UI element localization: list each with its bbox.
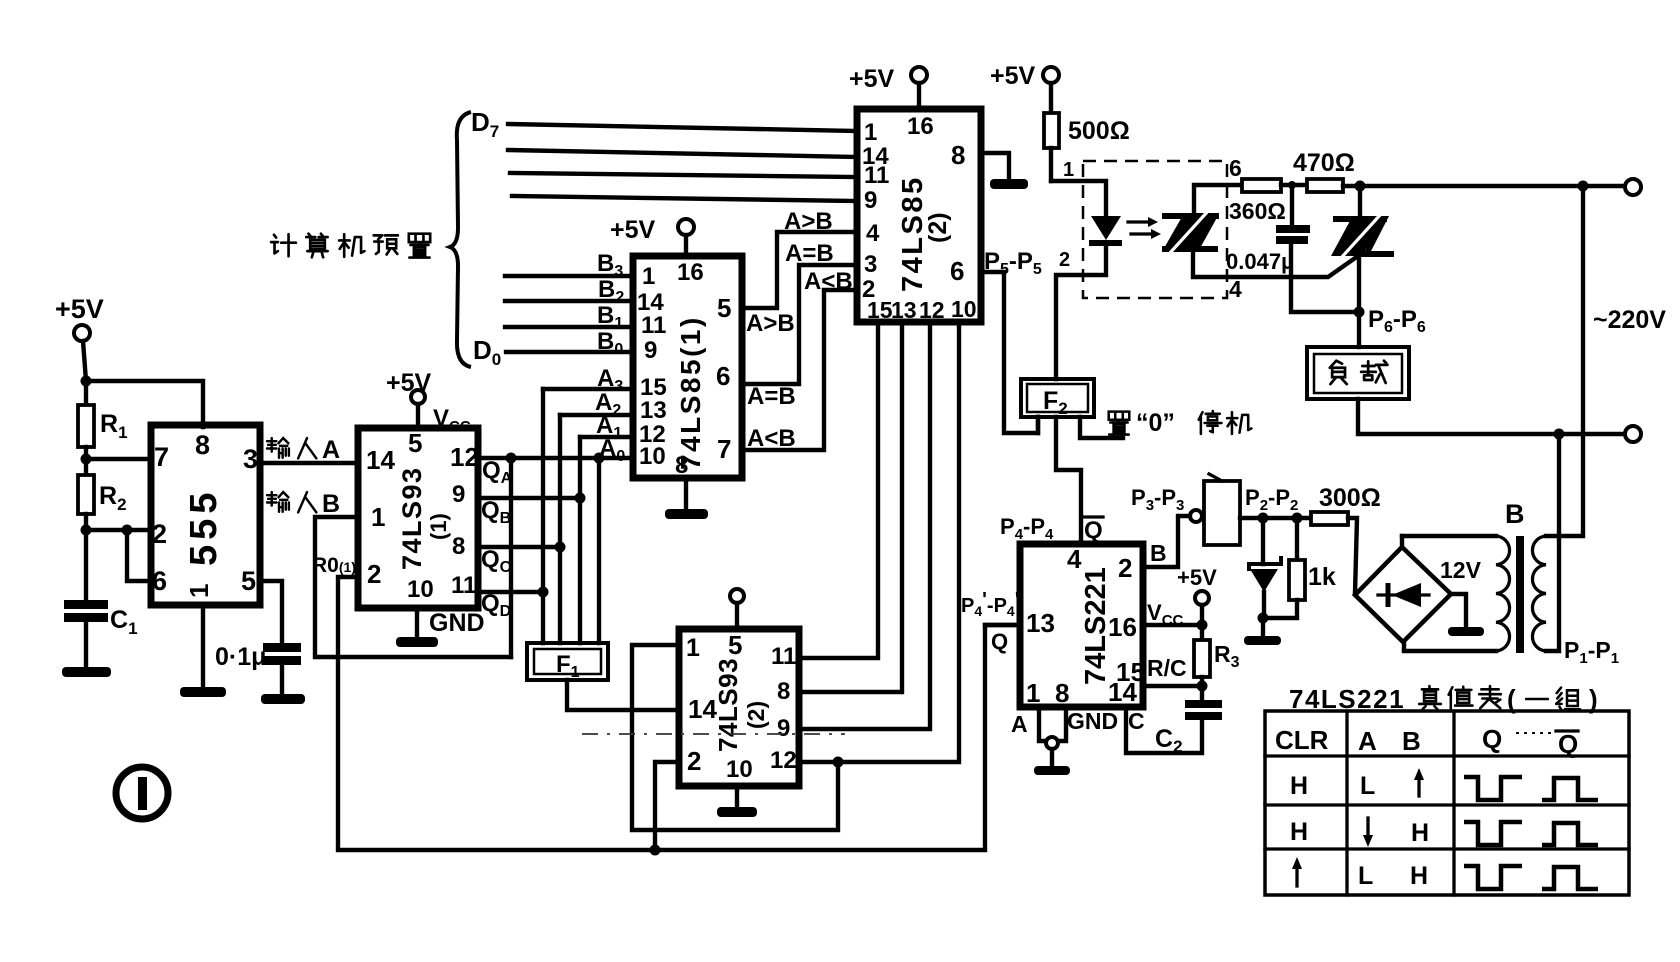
svg-text:A>B: A>B — [746, 310, 795, 337]
svg-text:555: 555 — [183, 488, 225, 566]
svg-text:8: 8 — [777, 678, 790, 705]
svg-text:10: 10 — [726, 756, 753, 783]
svg-text:8: 8 — [675, 452, 688, 479]
svg-text:B: B — [1402, 726, 1421, 756]
svg-text:16: 16 — [1108, 612, 1137, 642]
svg-text:1: 1 — [1026, 678, 1040, 708]
svg-text:~220V: ~220V — [1593, 306, 1666, 334]
svg-text:14: 14 — [366, 445, 395, 475]
svg-text:Q: Q — [991, 629, 1008, 654]
svg-text:7: 7 — [717, 434, 731, 464]
svg-text:3: 3 — [243, 444, 258, 474]
svg-text:12: 12 — [919, 297, 945, 323]
svg-text:360Ω: 360Ω — [1229, 198, 1286, 224]
svg-text:1: 1 — [371, 502, 385, 532]
svg-text:470Ω: 470Ω — [1293, 149, 1355, 177]
svg-text:4: 4 — [866, 220, 880, 247]
svg-text:74LS85(1): 74LS85(1) — [675, 315, 706, 470]
svg-text:1: 1 — [642, 263, 655, 290]
svg-text:1: 1 — [1063, 159, 1074, 181]
svg-text:12: 12 — [770, 747, 797, 774]
svg-text:74LS93: 74LS93 — [713, 658, 743, 752]
svg-text:H: H — [1290, 772, 1308, 800]
svg-text:(1): (1) — [426, 513, 451, 540]
svg-text:0.047μ: 0.047μ — [1226, 249, 1295, 274]
svg-text:C: C — [1128, 708, 1145, 734]
svg-text:+5V: +5V — [610, 216, 656, 244]
svg-text:11: 11 — [641, 312, 666, 339]
svg-text:A: A — [1358, 726, 1377, 756]
svg-text:A=B: A=B — [747, 383, 796, 410]
svg-text:16: 16 — [907, 113, 934, 140]
svg-text:GND: GND — [429, 609, 485, 637]
svg-text:1: 1 — [184, 584, 214, 598]
svg-text:300Ω: 300Ω — [1319, 484, 1381, 512]
svg-text:9: 9 — [452, 481, 465, 508]
svg-text:A>B: A>B — [784, 208, 833, 235]
svg-text:): ) — [1589, 684, 1598, 714]
svg-text:H: H — [1410, 862, 1428, 890]
svg-text:4: 4 — [1067, 544, 1082, 574]
svg-text:9: 9 — [644, 337, 657, 364]
svg-text:A: A — [322, 436, 340, 464]
svg-text:1k: 1k — [1308, 563, 1336, 591]
svg-text:2: 2 — [1118, 553, 1132, 583]
svg-text:8: 8 — [1055, 678, 1069, 708]
svg-text:8: 8 — [452, 533, 465, 560]
svg-text:(2): (2) — [924, 212, 952, 243]
svg-text:L: L — [1358, 862, 1373, 890]
svg-text:15: 15 — [867, 297, 893, 323]
svg-text:0·1μ: 0·1μ — [215, 643, 266, 671]
svg-text:A: A — [1011, 711, 1028, 737]
svg-text:6: 6 — [716, 361, 730, 391]
svg-text:2: 2 — [152, 519, 167, 549]
svg-text:2: 2 — [367, 559, 381, 589]
svg-text:CLR: CLR — [1275, 725, 1329, 755]
svg-text:5: 5 — [241, 566, 256, 596]
svg-text:B: B — [1505, 499, 1525, 529]
svg-text:16: 16 — [677, 259, 704, 286]
svg-text:+5V: +5V — [386, 369, 432, 397]
svg-text:500Ω: 500Ω — [1068, 117, 1130, 145]
svg-text:B: B — [1150, 540, 1167, 566]
svg-text:Q: Q — [1558, 729, 1578, 759]
svg-text:A<B: A<B — [804, 268, 853, 295]
svg-text:B: B — [322, 490, 340, 518]
svg-text:H: H — [1290, 818, 1308, 846]
svg-text:13: 13 — [640, 397, 667, 424]
svg-text:3: 3 — [864, 251, 877, 278]
svg-text:13: 13 — [1026, 608, 1055, 638]
svg-text:13: 13 — [891, 297, 917, 323]
svg-text:9: 9 — [777, 715, 790, 742]
svg-text:6: 6 — [950, 256, 964, 286]
svg-text:5: 5 — [408, 428, 422, 458]
svg-text:1: 1 — [686, 634, 700, 662]
svg-text:(2): (2) — [743, 701, 769, 729]
svg-text:8: 8 — [195, 430, 210, 460]
svg-text:74LS93: 74LS93 — [397, 466, 427, 570]
svg-text:6: 6 — [152, 566, 167, 596]
svg-text:GND: GND — [1067, 708, 1118, 734]
svg-text:1: 1 — [864, 119, 877, 146]
svg-text:10: 10 — [639, 443, 666, 470]
svg-text:Q: Q — [1482, 724, 1502, 754]
svg-text:12V: 12V — [1440, 557, 1482, 583]
svg-text:8: 8 — [951, 140, 965, 170]
svg-text:“0”: “0” — [1136, 409, 1175, 437]
svg-text:+5V: +5V — [849, 65, 895, 93]
svg-text:9: 9 — [864, 187, 877, 214]
svg-text:4: 4 — [1229, 276, 1242, 302]
svg-text:10: 10 — [407, 576, 434, 603]
svg-text:+5V: +5V — [990, 62, 1036, 90]
svg-text:5: 5 — [717, 293, 731, 323]
svg-text:+5V: +5V — [55, 294, 104, 324]
svg-text:(: ( — [1507, 684, 1516, 714]
svg-text:H: H — [1411, 819, 1429, 847]
svg-text:+5V: +5V — [1177, 565, 1217, 590]
svg-text:12: 12 — [450, 442, 479, 472]
svg-text:A<B: A<B — [747, 425, 796, 452]
svg-text:14: 14 — [1108, 677, 1137, 707]
svg-text:11: 11 — [771, 643, 796, 670]
svg-text:11: 11 — [451, 572, 476, 599]
svg-text:R/C: R/C — [1147, 655, 1187, 681]
svg-text:10: 10 — [951, 296, 977, 322]
svg-text:5: 5 — [728, 630, 742, 660]
svg-text:Q: Q — [1084, 517, 1103, 544]
svg-text:A=B: A=B — [785, 240, 834, 267]
svg-text:11: 11 — [864, 162, 889, 189]
svg-text:14: 14 — [688, 694, 717, 724]
svg-text:L: L — [1360, 772, 1375, 800]
svg-text:7: 7 — [154, 442, 169, 472]
svg-text:6: 6 — [1229, 155, 1242, 181]
svg-text:2: 2 — [1059, 249, 1070, 271]
svg-text:2: 2 — [687, 746, 701, 776]
